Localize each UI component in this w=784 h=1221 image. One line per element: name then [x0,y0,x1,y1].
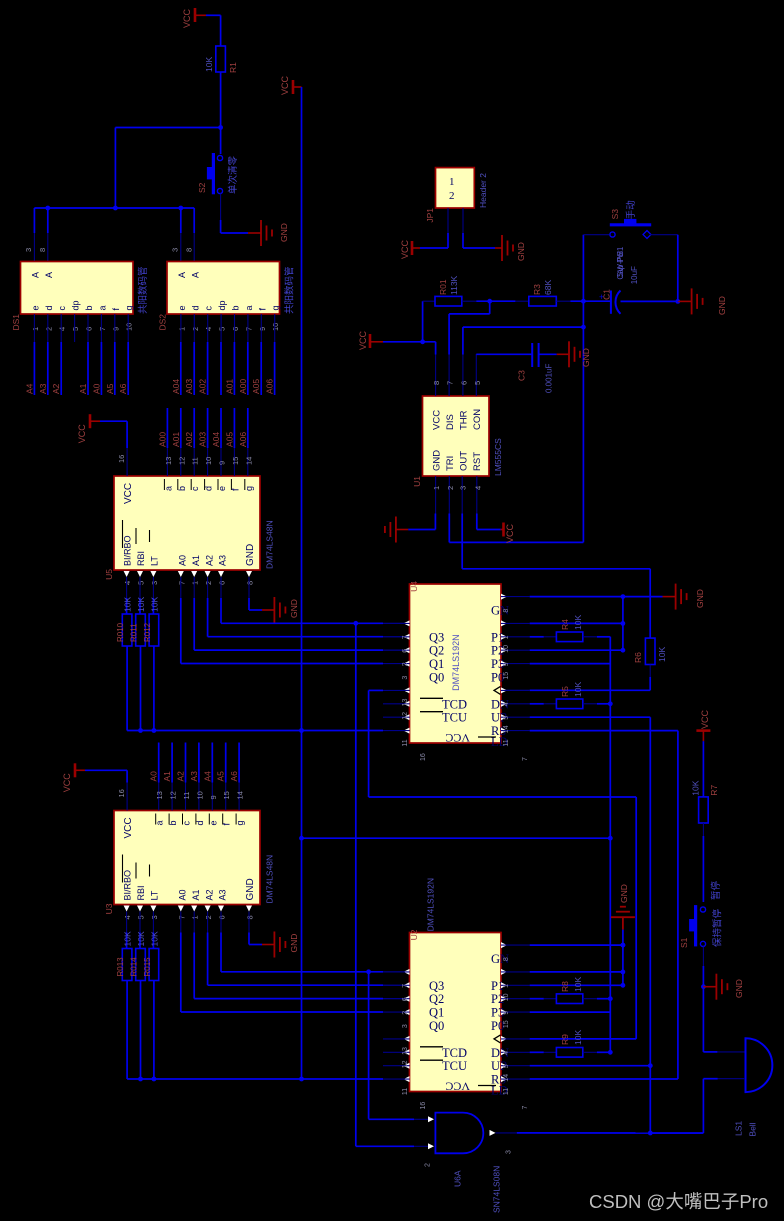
svg-text:DM74LS48N: DM74LS48N [265,855,275,904]
svg-text:A00: A00 [238,379,248,394]
capacitor C1 10uF Cap Pol1 [599,246,639,314]
svg-text:TCU: TCU [442,711,467,725]
svg-text:10K: 10K [573,615,583,630]
svg-text:A4: A4 [202,771,212,782]
wire U2 L row (rail right segment) [530,1078,678,1080]
svg-text:10K: 10K [657,647,667,662]
svg-text:6: 6 [85,327,94,331]
svg-text:VCC: VCC [280,75,290,95]
svg-text:12: 12 [177,457,186,465]
svg-text:S2: S2 [197,182,207,193]
svg-text:LT: LT [150,890,160,900]
svg-text:16: 16 [117,789,126,797]
svg-text:Q3: Q3 [429,630,444,644]
svg-text:4: 4 [123,915,132,919]
svg-text:2: 2 [191,327,200,331]
svg-text:10K: 10K [123,597,133,612]
svg-text:9: 9 [503,1011,510,1015]
svg-text:DM74LS192N: DM74LS192N [426,878,436,931]
svg-text:CON: CON [472,409,483,430]
ground GND (C3) [557,341,591,367]
svg-text:VCC: VCC [505,523,515,543]
wire 555 OUT pin3 clock [462,514,650,639]
display DS2 7-segment [158,248,296,342]
svg-text:4: 4 [123,581,132,585]
svg-text:5: 5 [503,1064,510,1068]
svg-text:11: 11 [402,739,409,746]
svg-text:16: 16 [117,455,126,463]
svg-text:9: 9 [503,662,510,666]
svg-text:14: 14 [503,1074,510,1082]
switch S1 pause-hold [679,881,724,949]
svg-text:R9: R9 [560,1034,570,1045]
svg-text:0.001uF: 0.001uF [545,364,554,393]
wire gate output to bell net [496,1132,704,1134]
svg-text:CSDN @大嘴巴子Pro: CSDN @大嘴巴子Pro [589,1191,768,1212]
wire C1 to GND [621,299,681,304]
svg-text:A03: A03 [198,432,208,447]
svg-text:S3: S3 [610,209,620,220]
ground GND (S1) [703,974,744,1000]
wire VCC rail link row 838 [302,837,611,839]
svg-text:VCC: VCC [445,1080,470,1094]
svg-text:A06: A06 [265,379,275,394]
svg-text:A1: A1 [78,383,88,394]
svg-text:15: 15 [231,457,240,465]
svg-text:8: 8 [246,581,255,585]
svg-text:R013: R013 [116,957,125,977]
svg-text:R015: R015 [143,957,152,977]
svg-text:d: d [190,305,200,310]
svg-text:R01: R01 [438,279,448,295]
svg-text:GND: GND [717,296,727,315]
svg-text:g: g [124,305,134,310]
svg-text:A: A [177,272,187,278]
timer U1 LM555CS [412,355,503,514]
svg-text:10K: 10K [691,780,701,795]
svg-text:Header 2: Header 2 [478,173,488,208]
svg-text:Q2: Q2 [429,644,444,658]
svg-text:8: 8 [38,248,47,252]
svg-text:A1: A1 [191,555,201,566]
wire U4 TCD to U2 DOWN clock chain [369,690,637,1039]
svg-text:7: 7 [244,327,253,331]
svg-text:16: 16 [420,753,427,761]
svg-text:A2: A2 [204,889,214,900]
svg-text:A: A [190,272,200,278]
svg-text:OUT: OUT [459,451,470,471]
svg-text:VCC: VCC [62,773,72,793]
svg-text:VCC: VCC [123,817,134,838]
svg-text:12: 12 [402,1060,409,1068]
svg-text:16: 16 [420,1102,427,1110]
svg-text:12: 12 [169,791,178,799]
svg-text:10K: 10K [573,1030,583,1045]
ground GND (S2) [248,220,289,246]
svg-text:13: 13 [155,791,164,799]
svg-text:VCC: VCC [445,731,470,745]
svg-text:a: a [244,305,254,310]
svg-text:13: 13 [402,699,409,707]
svg-text:6: 6 [218,915,227,919]
wire bell input 2 chain [648,1079,745,1136]
svg-text:5: 5 [218,327,227,331]
svg-text:手动: 手动 [625,200,637,219]
svg-text:15: 15 [503,1020,510,1028]
svg-text:THR: THR [459,410,470,430]
resistor R8 10K on U2 P3 [530,977,611,1004]
svg-text:3: 3 [150,581,159,585]
wire U4 GND pin to ground [530,594,663,599]
svg-text:DS1: DS1 [11,314,21,331]
svg-text:3: 3 [402,676,409,680]
resistor R7 10K [691,741,720,902]
svg-text:DS2: DS2 [158,314,168,331]
wires DS2 segment pins with net labels [171,342,275,395]
wire THR pin6 to node [463,325,586,355]
wire GND pin of U5 [249,597,299,623]
svg-text:8: 8 [246,915,255,919]
svg-text:A0: A0 [178,555,188,566]
svg-text:A6: A6 [118,383,128,394]
svg-text:LM555CS: LM555CS [493,438,503,476]
resistors 10K pull-ups of U3 [116,931,159,1079]
switch S2 single-clear [197,153,239,194]
svg-text:R8: R8 [560,981,570,992]
svg-text:6: 6 [402,649,409,653]
svg-text:c: c [57,306,67,311]
svg-text:A04: A04 [171,379,181,394]
svg-text:VCC: VCC [358,330,368,350]
wire VCC node up to R01 [423,301,435,342]
ground GND (C1) [678,288,727,315]
svg-text:4: 4 [204,327,213,331]
svg-text:GND: GND [734,979,744,998]
svg-text:R7: R7 [709,785,719,796]
svg-text:JP1: JP1 [425,208,435,223]
node Q3(U2) to gate input [366,969,371,1118]
wire R3 to C1 node [570,299,611,304]
svg-text:10K: 10K [149,597,159,612]
svg-text:8: 8 [432,381,441,385]
svg-text:1: 1 [503,984,510,988]
svg-text:10: 10 [271,323,280,331]
svg-text:6: 6 [402,997,409,1001]
decoder U3 DM74LS48N [104,811,275,933]
svg-text:4: 4 [473,486,482,490]
svg-text:8: 8 [503,957,510,961]
svg-text:2: 2 [204,581,213,585]
svg-text:4: 4 [503,1051,510,1055]
svg-text:A0: A0 [178,889,188,900]
svg-text:A: A [30,272,40,278]
ground GND (U4) [663,584,706,610]
svg-text:113K: 113K [449,275,459,295]
ground GND (555 pin1) [385,517,408,543]
svg-text:Q3: Q3 [429,979,444,993]
svg-text:10: 10 [503,645,510,653]
svg-text:BI/RBO: BI/RBO [123,535,133,566]
svg-text:A01: A01 [224,379,234,394]
svg-text:10: 10 [195,791,204,799]
wire U2 P0 to VCC net [530,1011,611,1013]
svg-text:11: 11 [503,1088,510,1095]
svg-text:A2: A2 [51,383,61,394]
svg-text:LT: LT [150,556,160,566]
svg-text:S1: S1 [679,937,689,948]
wire U2 GND pin row [530,943,626,948]
svg-text:8: 8 [185,248,194,252]
svg-text:6: 6 [459,381,468,385]
svg-text:U5: U5 [104,569,114,580]
resistors 10K pull-ups of U5 [116,597,159,731]
svg-text:14: 14 [503,725,510,733]
svg-text:10K: 10K [123,931,133,946]
svg-text:3: 3 [402,1024,409,1028]
svg-text:A3: A3 [218,889,228,900]
svg-text:11: 11 [182,792,191,800]
svg-text:U4: U4 [409,581,419,592]
svg-text:dp: dp [71,300,81,310]
svg-text:A: A [44,272,54,278]
wire U4 L row to LD vertical [530,731,678,1079]
svg-text:10K: 10K [573,682,583,697]
svg-text:共阳数码管: 共阳数码管 [137,266,149,314]
wire S2 to GND [221,194,248,234]
svg-text:A03: A03 [184,379,194,394]
svg-text:R6: R6 [633,652,643,663]
wire U2 R pin row [530,1063,653,1068]
svg-text:10K: 10K [136,597,146,612]
svg-text:2: 2 [204,915,213,919]
wire U4 P0 to VCC net [530,663,611,665]
svg-text:9: 9 [258,327,267,331]
svg-text:A05: A05 [224,432,234,447]
svg-text:Q0: Q0 [429,1019,444,1033]
svg-text:A2: A2 [204,555,214,566]
svg-text:15: 15 [222,791,231,799]
svg-text:LS1: LS1 [734,1121,744,1136]
svg-text:dp: dp [217,300,227,310]
svg-text:1: 1 [191,581,200,585]
svg-text:3: 3 [24,248,33,252]
resistor R9 10K on U2 U pin [530,1030,611,1058]
power VCC (net of R1) [182,8,206,28]
wire S1 node to bell input 1 [703,1051,745,1053]
svg-text:A3: A3 [218,555,228,566]
svg-text:10uF: 10uF [630,266,639,284]
svg-text:8: 8 [503,609,510,613]
connector JP1 Header 2 [425,168,488,233]
wire U4 R pin to reset vertical [530,717,651,1133]
svg-text:2: 2 [402,662,409,666]
svg-text:A0: A0 [91,383,101,394]
rail LD/resistors upper (VCC net) [127,728,409,733]
svg-text:7: 7 [177,915,186,919]
svg-text:d: d [44,305,54,310]
svg-text:Bell: Bell [748,1122,758,1136]
svg-text:GND: GND [695,589,705,608]
svg-text:U3: U3 [104,903,114,914]
svg-text:TCD: TCD [442,1046,467,1060]
wires output pins of U3 with net labels [149,743,245,811]
svg-text:A2: A2 [176,771,186,782]
wire node to display-anode rail [115,128,220,209]
svg-text:A1: A1 [162,771,172,782]
svg-text:A06: A06 [238,432,248,447]
svg-text:b: b [231,305,241,310]
svg-text:1: 1 [449,176,455,188]
svg-text:SN74LS08N: SN74LS08N [492,1166,502,1213]
power VCC (555) [358,330,383,350]
wire S3 right pin to GND net [650,235,678,302]
svg-text:5: 5 [503,716,510,720]
resistor R4 10K on U4 P2 [530,615,611,642]
svg-text:4: 4 [58,327,67,331]
svg-text:DM74LS192N: DM74LS192N [451,634,461,691]
svg-text:GND: GND [279,223,289,242]
svg-text:9: 9 [209,795,218,799]
rail LD/resistors lower (VCC net) [127,1077,409,1082]
wires U3 A0-A3 to counter U2 Q outputs [181,933,410,1013]
wire R1 to S2 / node [218,72,223,154]
svg-text:GND: GND [516,242,526,261]
rail display anode pins [34,206,194,261]
svg-text:7: 7 [402,635,409,639]
svg-text:VCC: VCC [432,410,443,430]
svg-text:RBI: RBI [136,885,146,900]
wires U5 A0-A3 to counter U4 Q outputs [181,598,410,664]
svg-text:9: 9 [111,327,120,331]
svg-text:1: 1 [191,915,200,919]
svg-text:10K: 10K [204,57,214,72]
wire GND pin of U3 [249,932,299,958]
svg-text:BI/RBO: BI/RBO [123,870,133,901]
resistor R6 10K clock series [633,638,667,690]
switch S3 manual count [610,200,651,277]
svg-text:Q0: Q0 [429,671,444,685]
svg-text:1: 1 [177,327,186,331]
svg-text:R3: R3 [532,284,542,295]
svg-text:VCC: VCC [700,709,710,729]
svg-text:R014: R014 [130,957,139,977]
svg-text:VCC: VCC [77,424,87,444]
svg-text:7: 7 [446,381,455,385]
wire gate input 1 from Q3(U2) [369,1118,428,1121]
svg-text:11: 11 [402,1088,409,1095]
svg-text:R010: R010 [116,622,125,642]
svg-text:A0: A0 [149,771,159,782]
svg-text:6: 6 [231,327,240,331]
svg-text:c: c [204,306,214,311]
svg-text:2: 2 [44,327,53,331]
wire R01 to R3 node [476,299,515,304]
svg-text:DIS: DIS [445,414,456,430]
power VCC (hold switch) [696,709,710,741]
svg-text:C1: C1 [602,289,612,300]
display DS1 7-segment [11,248,149,342]
svg-text:1: 1 [503,635,510,639]
svg-text:GND: GND [432,450,443,471]
svg-text:A05: A05 [251,379,261,394]
svg-text:10K: 10K [136,931,146,946]
decoder U5 DM74LS48N [104,476,275,598]
svg-text:14: 14 [244,457,253,465]
svg-text:DM74LS48N: DM74LS48N [265,520,275,569]
svg-text:2: 2 [425,1163,432,1167]
svg-text:VCC: VCC [182,8,192,28]
svg-text:TCU: TCU [442,1059,467,1073]
wire VCC to 555 pin8 [383,339,436,354]
svg-text:A3: A3 [189,771,199,782]
svg-text:U1: U1 [412,476,422,487]
svg-text:VCC: VCC [123,483,134,504]
svg-text:A00: A00 [157,432,167,447]
svg-text:GND: GND [581,348,591,367]
svg-text:b: b [84,305,94,310]
svg-text:13: 13 [164,457,173,465]
svg-text:A02: A02 [184,432,194,447]
svg-text:TCD: TCD [442,697,467,711]
svg-text:RST: RST [472,452,483,471]
svg-text:A1: A1 [191,889,201,900]
wire S3 left pin to timing node [583,234,609,236]
svg-text:3: 3 [506,1150,513,1154]
svg-text:R012: R012 [143,622,152,642]
svg-text:R5: R5 [560,686,570,697]
resistor R01 113K [435,275,476,306]
svg-text:TRI: TRI [445,456,456,471]
wire VCC pin16 of U5 [77,414,127,476]
svg-text:14: 14 [236,791,245,799]
svg-text:a: a [97,305,107,310]
wires output pins of U5 with net labels [157,408,253,476]
svg-text:10: 10 [125,323,134,331]
svg-text:7: 7 [522,1106,529,1110]
wires U2 P1/P2 tied to GND net [530,930,626,988]
svg-text:e: e [177,305,187,310]
capacitor C3 0.001uF on CON [476,343,556,393]
svg-text:U2: U2 [409,929,419,940]
svg-text:Q1: Q1 [429,657,444,671]
svg-text:R011: R011 [130,623,139,642]
power VCC (long rail, top) [280,75,302,95]
svg-text:单次清零: 单次清零 [227,155,239,194]
svg-text:U6A: U6A [453,1170,463,1187]
svg-text:共阳数码管: 共阳数码管 [284,266,296,314]
svg-text:C3: C3 [517,370,527,381]
svg-text:15: 15 [503,672,510,680]
svg-text:5: 5 [71,327,80,331]
svg-text:Q1: Q1 [429,1006,444,1020]
svg-text:暂停: 暂停 [710,881,722,901]
wire JP1 pin1 to VCC [400,233,448,259]
resistor R1 10K [204,46,238,73]
svg-text:GND: GND [289,599,299,618]
svg-text:GND: GND [289,934,299,953]
svg-text:R4: R4 [560,619,570,630]
AND gate U6A SN74LS08N [425,1113,513,1213]
svg-text:12: 12 [402,712,409,720]
svg-text:A5: A5 [216,771,226,782]
counter U4 DM74LS192N [383,581,530,761]
wire VCC long vertical rail [299,87,304,1081]
svg-text:R1: R1 [228,62,238,73]
wire gate input 2 from A3 net [356,1145,428,1147]
svg-text:2: 2 [446,486,455,490]
svg-text:GND: GND [245,878,256,900]
wire S1 bottom to GND node [701,946,706,1052]
